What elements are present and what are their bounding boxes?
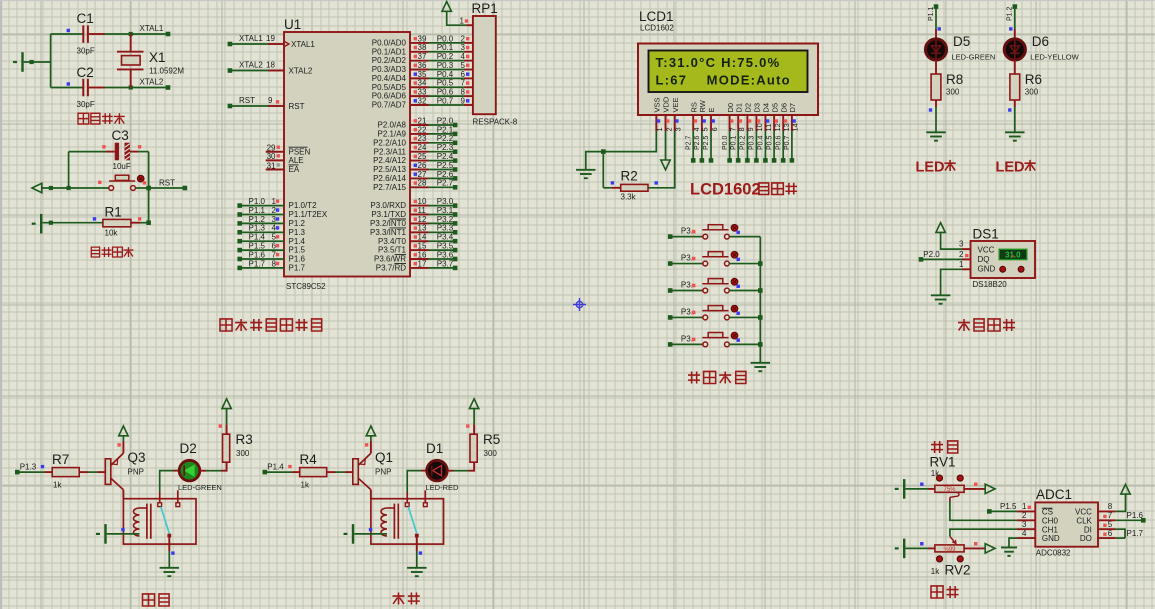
terminal P2.3 xyxy=(453,149,458,154)
wire R1 left xyxy=(42,222,103,224)
wire P1.5 to ADC CS xyxy=(989,510,1017,512)
svg-text:D4: D4 xyxy=(762,103,771,113)
pin D0 (lcd pin 7) xyxy=(729,115,731,131)
svg-text:3: 3 xyxy=(461,43,466,52)
svg-text:3: 3 xyxy=(674,127,683,131)
svg-text:P0.4: P0.4 xyxy=(758,135,765,150)
pin state square xyxy=(920,483,923,486)
pin state square xyxy=(369,528,372,531)
svg-text:P1.2: P1.2 xyxy=(1007,6,1014,21)
wire key4 right xyxy=(729,316,760,318)
pin stub P3.7 xyxy=(410,267,429,269)
terminal P2.0 xyxy=(453,123,458,128)
terminal P2.5 xyxy=(709,158,714,163)
svg-text:RST: RST xyxy=(239,96,255,105)
svg-text:XTAL1: XTAL1 xyxy=(239,34,263,43)
led D2 xyxy=(179,460,200,481)
pot RV1 wiper xyxy=(950,493,959,498)
svg-text:2: 2 xyxy=(1022,511,1027,520)
pin D6 (lcd pin 13) xyxy=(782,115,784,131)
terminal P2.6 xyxy=(700,158,705,163)
wire led to R5 xyxy=(447,470,453,472)
wire ground to RV1 xyxy=(905,488,928,490)
terminal P1.2 xyxy=(237,221,242,226)
power arrow (DS1) xyxy=(936,223,945,233)
power arrow right (RV2) xyxy=(985,544,995,553)
terminal P1.5 xyxy=(987,509,992,514)
wire P3.2 xyxy=(429,222,456,224)
svg-text:16: 16 xyxy=(418,250,427,259)
wire RST to U1 xyxy=(230,105,268,107)
wire XTAL1 to U1 xyxy=(230,43,268,45)
svg-text:P0.2/AD2: P0.2/AD2 xyxy=(372,56,407,65)
svg-text:P3.0/RXD: P3.0/RXD xyxy=(370,201,406,210)
node junction xyxy=(758,315,763,320)
wire XTAL2 to U1 xyxy=(230,70,268,72)
wire P1.4 to U1 xyxy=(240,240,284,242)
svg-text:CH1: CH1 xyxy=(1042,525,1059,534)
svg-text:300: 300 xyxy=(236,449,250,458)
terminal XTAL1 xyxy=(228,42,233,47)
svg-text:VCC: VCC xyxy=(1075,508,1092,517)
pin state square xyxy=(466,81,469,84)
svg-text:3: 3 xyxy=(959,240,964,249)
capacitor C1 xyxy=(82,25,84,43)
wire xyxy=(24,61,51,63)
wire P3.4 xyxy=(429,240,456,242)
wire ADC DI xyxy=(1098,528,1116,530)
pin state square xyxy=(974,483,977,486)
relay pivot xyxy=(415,534,419,538)
svg-text:6: 6 xyxy=(710,127,719,131)
svg-text:21: 21 xyxy=(418,116,427,125)
svg-text:P1.6: P1.6 xyxy=(289,255,306,264)
relay core xyxy=(146,504,148,539)
pin state square xyxy=(737,285,740,288)
pin state square xyxy=(974,542,977,545)
svg-text:D6: D6 xyxy=(779,103,788,113)
pin state square xyxy=(466,90,469,93)
svg-text:2: 2 xyxy=(272,206,277,215)
wire P1.7 to U1 xyxy=(240,267,284,269)
terminal P1.3 xyxy=(15,470,20,475)
pin state square xyxy=(414,181,417,184)
terminal P1.2 xyxy=(1013,4,1018,9)
svg-text:L:67 MODE:Auto: L:67 MODE:Auto xyxy=(656,73,791,88)
pin state square xyxy=(414,226,417,229)
resistor R6 xyxy=(1010,74,1020,100)
svg-text:P3.5: P3.5 xyxy=(437,242,454,251)
terminal P1.6 xyxy=(1141,518,1146,523)
pin stub P0.6 xyxy=(410,95,429,97)
pin state square xyxy=(414,72,417,75)
pin stub EA xyxy=(266,169,284,171)
svg-text:P1.3: P1.3 xyxy=(20,463,37,472)
svg-text:P1.5: P1.5 xyxy=(249,242,266,251)
svg-text:VEE: VEE xyxy=(671,97,680,112)
wire power to DS1 VCC xyxy=(941,232,962,249)
svg-text:19: 19 xyxy=(266,34,275,43)
terminal key4 xyxy=(668,315,673,320)
svg-text:C3: C3 xyxy=(112,128,129,143)
resistor R7 xyxy=(52,468,79,477)
terminal P2.5 xyxy=(453,167,458,172)
svg-text:300: 300 xyxy=(484,449,498,458)
wire P0.7 to RP1 xyxy=(429,104,464,106)
pin state square xyxy=(466,424,469,427)
svg-text:R8: R8 xyxy=(946,72,963,87)
pin state square xyxy=(466,99,469,102)
terminal key3 xyxy=(668,288,673,293)
wire collector to relay xyxy=(122,490,124,499)
svg-text:17: 17 xyxy=(418,259,427,268)
power arrow right (RV1) xyxy=(985,484,995,493)
svg-text:P3.2/INT0: P3.2/INT0 xyxy=(370,219,407,228)
svg-text:P1.7: P1.7 xyxy=(289,264,306,273)
svg-text:1k: 1k xyxy=(53,481,62,490)
pin D5 (lcd pin 12) xyxy=(773,115,775,131)
svg-text:P1.0: P1.0 xyxy=(249,197,266,206)
terminal P1.3 xyxy=(237,230,242,235)
crystal X1 xyxy=(130,34,132,52)
pin state square xyxy=(466,55,469,58)
terminal P0.5 xyxy=(772,158,777,163)
power arrow (Q1) xyxy=(366,426,375,436)
pin state square xyxy=(414,90,417,93)
pin stub P2.6 xyxy=(410,177,429,179)
svg-text:10: 10 xyxy=(755,123,764,131)
pin state square xyxy=(276,262,279,265)
terminal P3.6 xyxy=(453,257,458,262)
pin state square xyxy=(466,46,469,49)
svg-text:P0.6: P0.6 xyxy=(437,88,454,97)
terminal P0.0 xyxy=(727,158,732,163)
wire P2.2 xyxy=(429,142,456,144)
resistor R8 xyxy=(931,74,941,100)
svg-text:P0.2: P0.2 xyxy=(437,52,454,61)
wire led to contact left xyxy=(159,492,161,503)
pin state square xyxy=(414,164,417,167)
svg-text:XTAL2: XTAL2 xyxy=(239,61,263,70)
svg-text:P0.0: P0.0 xyxy=(722,135,729,150)
wire P1.4 to R4 xyxy=(265,471,292,473)
pin clock arrow xyxy=(285,42,290,47)
pin stub P2.5 xyxy=(410,169,429,171)
wire P1.3 to R7 xyxy=(17,471,44,473)
resistor R1 xyxy=(103,219,131,226)
svg-text:30pF: 30pF xyxy=(77,47,95,56)
svg-text:C2: C2 xyxy=(77,65,94,80)
svg-text:P3.1/TXD: P3.1/TXD xyxy=(371,210,406,219)
svg-text:R7: R7 xyxy=(52,452,69,467)
node junction xyxy=(758,261,763,266)
svg-text:27: 27 xyxy=(418,170,427,179)
pin stub P0.2 xyxy=(410,60,429,62)
svg-text:31: 31 xyxy=(267,161,276,170)
power arrow (RP1) xyxy=(442,2,451,12)
pin state square xyxy=(138,217,141,220)
pin D2 (lcd pin 9) xyxy=(746,115,748,131)
terminal P0.2 xyxy=(745,158,750,163)
wire lcd VSS to ground xyxy=(586,131,657,170)
svg-text:75%: 75% xyxy=(943,487,956,493)
pin stub P3.2 xyxy=(410,222,429,224)
terminal P0.7 xyxy=(790,158,795,163)
wire C2 right xyxy=(89,87,105,89)
terminal P3.7 xyxy=(453,266,458,271)
svg-text:P0.7/AD7: P0.7/AD7 xyxy=(372,101,407,110)
svg-text:1: 1 xyxy=(1022,502,1027,511)
node junction xyxy=(146,186,151,191)
svg-text:8: 8 xyxy=(1108,502,1113,511)
pin D7 (lcd pin 14) xyxy=(791,115,793,131)
led D1 xyxy=(427,460,448,481)
svg-text:32: 32 xyxy=(418,96,427,105)
pin state square xyxy=(929,108,932,111)
wire RV1 to power arrow xyxy=(964,488,985,490)
svg-text:P0.1: P0.1 xyxy=(730,135,737,150)
pin stub P3.1 xyxy=(410,214,429,216)
terminal key2 xyxy=(668,261,673,266)
pin RS (lcd pin 4) xyxy=(692,115,694,131)
svg-text:1: 1 xyxy=(460,16,465,25)
svg-text:P3.: P3. xyxy=(681,335,693,344)
wire key1 left xyxy=(670,236,701,238)
pin state square xyxy=(414,244,417,247)
pin stub ALE xyxy=(266,159,284,161)
node junction xyxy=(49,186,53,190)
relay contact left xyxy=(158,503,162,507)
node junction xyxy=(146,220,151,225)
pin state square xyxy=(1008,108,1011,111)
ground (relay coil) xyxy=(96,533,100,535)
terminal P0.4 xyxy=(763,158,768,163)
caption cooling xyxy=(143,594,155,606)
terminal P1.0 xyxy=(237,203,242,208)
svg-text:P2.6: P2.6 xyxy=(694,135,701,150)
svg-text:P1.2: P1.2 xyxy=(289,219,306,228)
relay contact left xyxy=(405,503,409,507)
svg-text:P2.5: P2.5 xyxy=(703,135,710,150)
wire ground to coil xyxy=(354,533,387,535)
svg-text:P3.3/INT1: P3.3/INT1 xyxy=(370,228,407,237)
pin state square xyxy=(121,528,124,531)
terminal key1 xyxy=(668,234,673,239)
svg-text:Q3: Q3 xyxy=(128,450,146,465)
svg-text:D6: D6 xyxy=(1032,34,1049,49)
svg-text:7: 7 xyxy=(461,79,466,88)
svg-text:P1.4: P1.4 xyxy=(267,463,284,472)
push button (reset) xyxy=(109,186,114,191)
resistor R4 xyxy=(300,468,327,477)
svg-text:15: 15 xyxy=(418,242,427,251)
svg-text:LCD1: LCD1 xyxy=(639,9,674,24)
node junction xyxy=(758,288,763,293)
svg-text:P1.2: P1.2 xyxy=(249,215,266,224)
svg-text:31.0: 31.0 xyxy=(1005,251,1021,260)
wire ADC VCC to power xyxy=(1098,510,1116,512)
resistor R5 xyxy=(470,434,477,462)
relay switch blade xyxy=(408,507,417,534)
svg-text:5: 5 xyxy=(1108,520,1113,529)
pin state square xyxy=(737,231,740,234)
pin state square xyxy=(466,37,469,40)
caption humidity xyxy=(931,441,943,453)
svg-text:LED: LED xyxy=(916,160,945,176)
svg-text:D1: D1 xyxy=(426,441,443,456)
svg-text:DO: DO xyxy=(1080,534,1092,543)
svg-text:P2.6: P2.6 xyxy=(437,170,454,179)
svg-text:STC89C52: STC89C52 xyxy=(286,282,326,291)
terminal P0.6 xyxy=(781,158,786,163)
pin state square xyxy=(414,173,417,176)
wire ADC CLK to P1.6 xyxy=(1098,519,1116,521)
wire P3.7 xyxy=(429,267,456,269)
svg-text:8: 8 xyxy=(737,127,746,131)
node junction xyxy=(758,342,763,347)
svg-text:P0.0/AD0: P0.0/AD0 xyxy=(372,39,407,48)
wire to C2 xyxy=(51,87,83,89)
terminal XTAL2 xyxy=(166,85,171,90)
wire P1.6 to U1 xyxy=(240,258,284,260)
wire key2 right xyxy=(729,263,760,265)
pin state square xyxy=(414,46,417,49)
wire resistor to ground xyxy=(935,100,937,107)
svg-text:11: 11 xyxy=(764,124,773,132)
svg-text:D2: D2 xyxy=(180,441,197,456)
node junction xyxy=(601,149,606,154)
wire RV2 to power arrow xyxy=(964,547,985,549)
push button key2 xyxy=(703,261,708,266)
power arrow (Q3) xyxy=(119,426,128,436)
node junction xyxy=(30,60,34,64)
svg-text:LCD1602: LCD1602 xyxy=(690,181,761,199)
terminal P2.7 xyxy=(691,158,696,163)
pin stub P3.4 xyxy=(410,240,429,242)
pot RV1 body xyxy=(935,485,964,492)
svg-text:4: 4 xyxy=(692,127,701,131)
svg-text:D3: D3 xyxy=(753,103,762,113)
pin state square xyxy=(414,262,417,265)
svg-text:RST: RST xyxy=(289,102,305,111)
resistor R3 xyxy=(223,434,230,462)
pin state square xyxy=(219,424,222,427)
svg-text:P2.2/A10: P2.2/A10 xyxy=(373,138,406,147)
sensor buttons xyxy=(1000,266,1006,272)
relay contact right xyxy=(423,503,427,507)
wire key5 left xyxy=(670,343,701,345)
svg-text:4: 4 xyxy=(272,224,277,233)
svg-text:P0.6: P0.6 xyxy=(775,135,782,150)
svg-text:P0.5: P0.5 xyxy=(766,135,773,150)
pin state square xyxy=(965,254,968,257)
svg-text:P1.1: P1.1 xyxy=(249,206,266,215)
wire power to emitter xyxy=(122,436,124,442)
ground (keys) xyxy=(751,362,771,364)
pin RW (lcd pin 5) xyxy=(701,115,703,131)
svg-text:P3.0: P3.0 xyxy=(437,197,454,206)
svg-text:11.0592M: 11.0592M xyxy=(149,67,184,76)
pin state square xyxy=(276,100,279,103)
pin stub P2.2 xyxy=(410,142,429,144)
svg-text:RW: RW xyxy=(698,99,707,112)
terminal P1.4 xyxy=(263,470,268,475)
svg-text:P3.3: P3.3 xyxy=(437,224,454,233)
svg-text:P2.2: P2.2 xyxy=(437,134,454,143)
pin stub P2.0 xyxy=(410,124,429,126)
wire R5 to power xyxy=(473,424,475,434)
wire power to emitter xyxy=(370,436,372,442)
svg-text:1k: 1k xyxy=(301,481,310,490)
svg-text:LED: LED xyxy=(996,160,1025,176)
pin state square xyxy=(414,155,417,158)
svg-text:P0.1/AD1: P0.1/AD1 xyxy=(372,47,407,56)
caption temperature module xyxy=(958,319,970,331)
svg-text:P1.3: P1.3 xyxy=(249,224,266,233)
pin stub P0.7 xyxy=(410,104,429,106)
terminal P1.5 xyxy=(237,248,242,253)
svg-text:R2: R2 xyxy=(621,169,638,184)
pin stub P2.3 xyxy=(410,151,429,153)
svg-text:12: 12 xyxy=(773,123,782,131)
node XTAL1 junction xyxy=(129,32,133,36)
wire D0 xyxy=(729,131,731,160)
wire P0.3 to RP1 xyxy=(429,69,464,71)
wire D2 xyxy=(746,131,748,160)
wire ground to coil xyxy=(107,533,140,535)
pin state square xyxy=(737,339,740,342)
svg-text:RST: RST xyxy=(159,179,175,188)
wire RW xyxy=(701,131,703,160)
pin VDD (lcd pin 2) xyxy=(665,115,667,131)
wire P1.2 to led xyxy=(1014,7,1016,29)
wire D7 xyxy=(791,131,793,160)
svg-text:2: 2 xyxy=(664,127,673,131)
svg-text:Q1: Q1 xyxy=(375,450,393,465)
wire P2.1 xyxy=(429,133,456,135)
svg-text:30pF: 30pF xyxy=(77,100,95,109)
svg-text:P1.5: P1.5 xyxy=(1000,502,1017,511)
wire D5 xyxy=(773,131,775,160)
terminal P1.4 xyxy=(237,239,242,244)
pin state square C1 xyxy=(67,29,70,32)
terminal P1.1 xyxy=(934,4,939,9)
caption mcu minimal system xyxy=(220,319,232,331)
svg-text:2: 2 xyxy=(461,34,466,43)
svg-text:P0.4/AD4: P0.4/AD4 xyxy=(372,74,407,83)
terminal P1.6 xyxy=(237,257,242,262)
cursor crosshair xyxy=(576,301,582,307)
svg-text:DI: DI xyxy=(1084,525,1092,534)
svg-text:10uF: 10uF xyxy=(113,162,131,171)
svg-text:RS: RS xyxy=(689,102,698,112)
pin stub P3.6 xyxy=(410,258,429,260)
svg-text:D5: D5 xyxy=(770,103,779,113)
resistor R2 xyxy=(612,187,621,189)
pin stub P0.3 xyxy=(410,69,429,71)
svg-text:1k: 1k xyxy=(931,567,940,576)
svg-text:9: 9 xyxy=(268,96,273,105)
ground (reset R1) xyxy=(32,223,36,225)
svg-text:RP1: RP1 xyxy=(472,1,498,16)
pin stub P2.4 xyxy=(410,160,429,162)
ground (D5) xyxy=(926,131,946,133)
svg-text:13: 13 xyxy=(418,224,427,233)
wire P2.5 xyxy=(429,169,456,171)
wire ground to RV2 xyxy=(905,547,928,549)
svg-text:37: 37 xyxy=(418,52,427,61)
transistor Q1 PNP xyxy=(353,459,359,485)
